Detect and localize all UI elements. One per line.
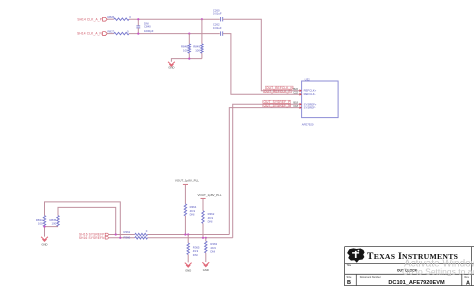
node OUT_REFCLK_N [265,86,293,90]
wire [148,234,230,236]
wire [109,234,135,236]
svg-text:B: B [347,280,351,286]
svg-text:GND: GND [185,268,191,272]
node junction [43,226,45,228]
svg-text:100: 100 [195,48,200,52]
resistor R826 [108,15,132,20]
wire [187,255,189,263]
node junction [187,233,189,235]
wire [205,253,207,262]
svg-text:SH16 SYSREFN: SH16 SYSREFN [79,236,105,240]
title block frame [345,247,474,286]
svg-text:GND: GND [203,268,209,272]
wire [129,33,220,35]
svg-text:0: 0 [146,229,148,233]
node OUT_SYSREF_P [263,100,291,104]
resistor R360 [124,235,148,239]
resistor R849 [193,44,203,53]
svg-text:AFE7920: AFE7920 [302,122,314,126]
capacitor C840 [136,19,153,33]
svg-text:R360: R360 [124,235,131,239]
svg-text:R361: R361 [124,230,131,234]
wire [205,238,207,241]
node junction [202,237,204,239]
capacitor C262 [213,23,223,36]
wire [201,53,203,58]
resistor R364 [184,204,197,217]
svg-text:Go to Settings to activate Win: Go to Settings to activate Windows. [402,266,474,276]
wire [233,104,300,238]
wire [201,19,203,44]
wire [187,235,189,244]
resistor R363 [205,241,218,253]
ground [41,237,48,247]
svg-text:0: 0 [129,15,131,19]
svg-text:C18: C18 [293,104,298,108]
node junction [184,233,186,235]
watermark activate windows [402,259,474,277]
ground [185,263,192,273]
pin SYSREF+ [300,102,317,106]
svg-text:SH14 CLK_A_P: SH14 CLK_A_P [77,17,102,21]
capacitor C260 [213,8,223,21]
node OUT_REFCLK_P [263,89,291,93]
svg-text:C22: C22 [293,91,298,95]
wire [107,18,114,20]
wire loop upper [45,202,121,238]
svg-text:REFCLK-: REFCLK- [304,92,316,96]
node OUT_SYSREF_N [263,104,291,108]
op-amp U32 AFE7920 [302,77,339,126]
svg-text:SYSREF-: SYSREF- [304,106,316,110]
connector SH16 SYSREFN [79,236,109,240]
svg-text:0.01uF: 0.01uF [213,12,222,16]
wire [148,237,233,239]
connector SH14 CLK_P [77,17,107,21]
node junction [119,237,121,239]
svg-text:0.01uF: 0.01uF [213,26,222,30]
wire [107,33,114,35]
pin SYSREF- [300,106,316,110]
wire [184,216,186,235]
svg-text:R827: R827 [108,29,115,33]
svg-text:U32: U32 [305,77,311,81]
svg-text:DNI: DNI [210,249,215,253]
svg-text:DNI: DNI [208,219,213,223]
wire [188,34,190,44]
node junction [205,237,207,239]
Texas Instruments logo [347,248,365,262]
node junction on CLK_P at C840 [137,18,139,20]
connector SH14 CLK_N [77,32,107,36]
power VOUT_1p8V_PLL [198,193,222,211]
wire [223,34,300,95]
svg-text:OUT_SYSREF_N: OUT_SYSREF_N [264,104,292,108]
resistor R835 [50,216,60,227]
ground [202,262,209,272]
svg-text:100: 100 [183,48,188,52]
resistor R834 [36,216,46,227]
node junction at termination bottom [188,58,190,60]
svg-text:Title: Title [347,264,352,267]
svg-text:VOUT_1p8V_PLL: VOUT_1p8V_PLL [175,178,199,182]
node junction [115,233,117,235]
svg-text:DNI: DNI [193,253,198,257]
svg-text:VOUT_1p8V_PLL: VOUT_1p8V_PLL [198,193,222,197]
wire [129,18,220,20]
resistor R361 [124,229,148,236]
node junction on CLK_N at C840 [137,33,139,35]
resistor R365 [187,243,200,257]
svg-text:1000pF: 1000pF [144,29,154,33]
node junction on CLK_P at termination [201,18,203,20]
ground [168,62,175,70]
resistor R827 [108,29,130,34]
pin REFCLK+ [300,89,317,93]
power VOUT_1p8V_PLL [175,178,199,204]
connector SH16 SYSREFP [79,233,109,237]
svg-text:0: 0 [127,29,129,33]
svg-text:OUT_REFCLK_P: OUT_REFCLK_P [264,89,291,93]
svg-text:DNI: DNI [190,212,195,216]
wire [229,108,299,235]
svg-text:100: 100 [52,222,57,226]
wire [188,53,190,58]
node junction on CLK_N at termination [188,33,190,35]
svg-text:Size: Size [347,276,352,279]
svg-text:100: 100 [38,222,43,226]
svg-text:SH14 CLK_A_N: SH14 CLK_A_N [77,32,102,36]
svg-text:GND: GND [168,66,174,70]
svg-text:B22: B22 [293,87,298,91]
wire [223,19,300,91]
wire [171,59,202,62]
wire loop lower [58,207,116,234]
resistor R362 [202,211,215,224]
pin REFCLK- [300,92,316,96]
wire [45,227,59,237]
svg-text:DC101_AFE7920EVM: DC101_AFE7920EVM [388,280,445,286]
svg-text:Document Number: Document Number [360,276,381,279]
wire [202,223,204,237]
svg-text:A: A [466,280,470,286]
resistor R848 [181,44,190,53]
svg-text:GND: GND [42,243,48,247]
wire [109,237,135,239]
svg-text:R826: R826 [108,15,115,19]
